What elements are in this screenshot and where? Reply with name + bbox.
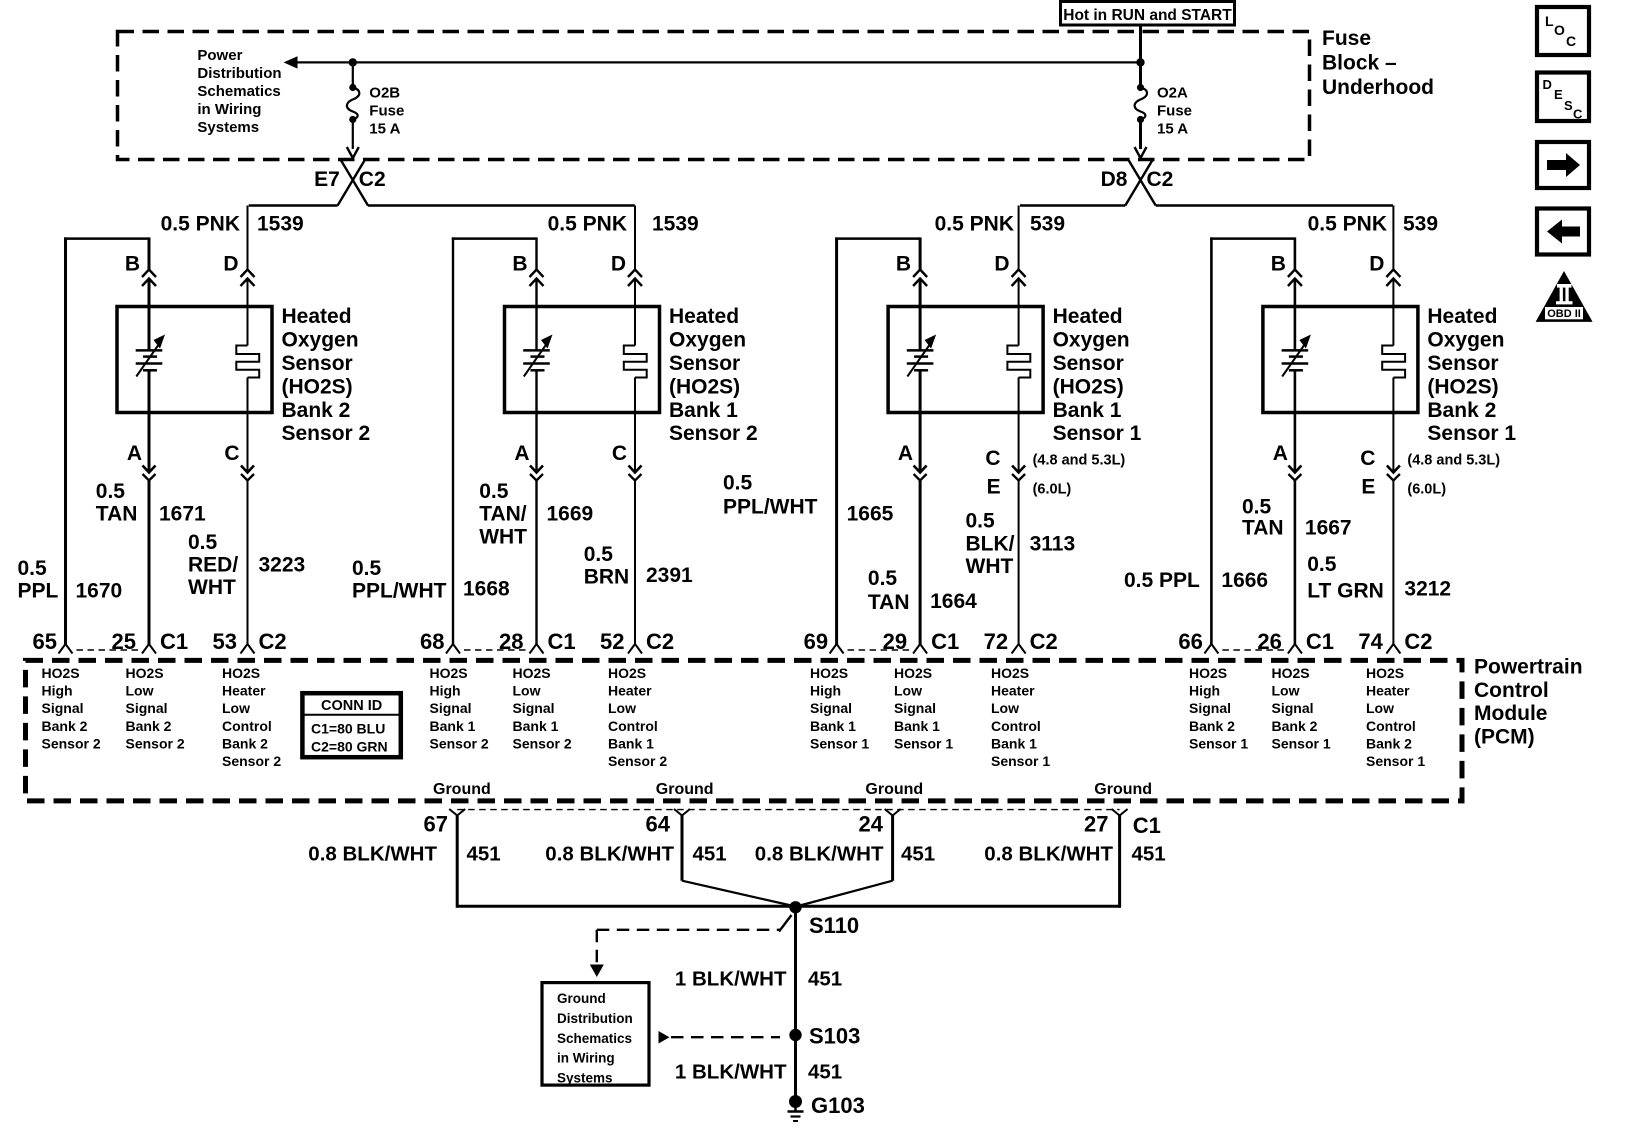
wire: PNK 1539 split horizontal left pair bbox=[249, 204, 338, 206]
svg-text:Fuse: Fuse bbox=[369, 103, 404, 120]
svg-text:HO2S: HO2S bbox=[608, 665, 646, 681]
svg-text:Heated: Heated bbox=[1427, 305, 1497, 328]
svg-text:Signal: Signal bbox=[1189, 700, 1231, 716]
svg-text:1539: 1539 bbox=[257, 213, 304, 236]
svg-text:in Wiring: in Wiring bbox=[197, 101, 261, 118]
svg-text:Control: Control bbox=[991, 718, 1041, 734]
svg-text:Low: Low bbox=[513, 683, 541, 699]
thin dashed connector line across ground pins bbox=[457, 809, 1119, 811]
svg-text:C2: C2 bbox=[1030, 629, 1058, 654]
svg-text:1 BLK/WHT: 1 BLK/WHT bbox=[675, 1060, 787, 1083]
svg-text:HO2S: HO2S bbox=[991, 665, 1029, 681]
svg-text:HO2S: HO2S bbox=[1366, 665, 1404, 681]
svg-text:451: 451 bbox=[901, 843, 935, 866]
svg-text:Sensor: Sensor bbox=[282, 352, 353, 375]
svg-text:Bank 1: Bank 1 bbox=[430, 718, 476, 734]
svg-text:29: 29 bbox=[883, 629, 907, 654]
svg-text:Heated: Heated bbox=[669, 305, 739, 328]
svg-text:D: D bbox=[994, 253, 1009, 276]
svg-text:24: 24 bbox=[859, 812, 884, 837]
svg-text:Heater: Heater bbox=[1366, 683, 1410, 699]
svg-text:TAN: TAN bbox=[1242, 517, 1284, 540]
svg-text:0.5 PPL: 0.5 PPL bbox=[1124, 569, 1200, 592]
svg-text:C1: C1 bbox=[1133, 813, 1161, 838]
connector E7 X C2 splice bbox=[338, 160, 365, 206]
svg-text:A: A bbox=[898, 442, 913, 465]
svg-text:0.8 BLK/WHT: 0.8 BLK/WHT bbox=[308, 843, 437, 866]
svg-text:HO2S: HO2S bbox=[1272, 665, 1310, 681]
PCM pin 66 bbox=[1204, 644, 1211, 654]
svg-text:539: 539 bbox=[1030, 213, 1065, 236]
svg-text:0.5 PNK: 0.5 PNK bbox=[548, 213, 627, 236]
wire: top loop to pin B Bank 1 Sensor 2 bbox=[452, 237, 537, 240]
fuse block - underhood dashed box bbox=[118, 32, 1310, 160]
wire: pin B lead Bank 1 Sensor 2 bbox=[535, 237, 537, 269]
svg-text:0.5 PNK: 0.5 PNK bbox=[935, 213, 1014, 236]
svg-text:65: 65 bbox=[33, 629, 57, 654]
svg-text:Signal: Signal bbox=[430, 700, 472, 716]
ground pin 67 fork bbox=[449, 809, 457, 816]
HO2S Bank 2 Sensor 1 box bbox=[1263, 307, 1418, 413]
svg-text:B: B bbox=[512, 253, 527, 276]
svg-text:Bank 1: Bank 1 bbox=[894, 718, 940, 734]
svg-text:Ground: Ground bbox=[656, 781, 714, 798]
svg-text:Sensor 1: Sensor 1 bbox=[1053, 422, 1142, 445]
wire: heater control to PCM Bank 1 Sensor 1 bbox=[1018, 481, 1020, 646]
svg-text:S110: S110 bbox=[809, 913, 859, 938]
svg-text:Bank 2: Bank 2 bbox=[222, 735, 268, 751]
wire: S103 to G103 1 BLK/WHT 451 bbox=[794, 1035, 797, 1100]
svg-text:D: D bbox=[611, 253, 626, 276]
ground distribution schematics note box bbox=[542, 983, 649, 1086]
svg-text:2391: 2391 bbox=[646, 564, 693, 587]
icon: DESC button bbox=[1537, 73, 1589, 122]
wire: sensing element to box bottom Bank 2 Sensor 1 bbox=[1294, 370, 1297, 472]
svg-text:D: D bbox=[1369, 253, 1384, 276]
wire: pin A to PCM Bank 1 Sensor 1 bbox=[919, 481, 922, 646]
wire: HO2S Bank 1 Sensor 1 high signal (left vertical) bbox=[835, 237, 838, 645]
svg-text:O: O bbox=[1554, 22, 1565, 38]
wire: ground 451 from pin 24 bbox=[891, 815, 894, 881]
svg-text:Signal: Signal bbox=[513, 700, 555, 716]
svg-text:Sensor 2: Sensor 2 bbox=[430, 735, 489, 751]
svg-text:CONN ID: CONN ID bbox=[321, 698, 382, 714]
wire: pin B lead Bank 1 Sensor 1 bbox=[919, 237, 922, 269]
svg-text:C2: C2 bbox=[1147, 168, 1174, 191]
svg-text:Heater: Heater bbox=[608, 683, 652, 699]
svg-text:S: S bbox=[1564, 98, 1573, 113]
svg-text:Bank 2: Bank 2 bbox=[282, 399, 351, 422]
svg-text:Heater: Heater bbox=[222, 683, 266, 699]
svg-text:Low: Low bbox=[1272, 683, 1300, 699]
svg-text:Ground: Ground bbox=[433, 781, 491, 798]
wire: pin A to PCM Bank 2 Sensor 1 bbox=[1294, 481, 1297, 646]
junction at fuse O2B tap bbox=[349, 58, 357, 66]
svg-text:Sensor 2: Sensor 2 bbox=[608, 753, 667, 769]
node: Hot in RUN and START box bbox=[1061, 2, 1235, 26]
ground pin 24 fork bbox=[885, 809, 893, 816]
svg-text:RED/: RED/ bbox=[188, 553, 238, 576]
svg-text:Control: Control bbox=[608, 718, 658, 734]
svg-text:LT GRN: LT GRN bbox=[1307, 579, 1384, 602]
svg-text:0.5 PNK: 0.5 PNK bbox=[1308, 213, 1387, 236]
icon: back arrow button bbox=[1537, 209, 1589, 255]
svg-text:C1: C1 bbox=[160, 629, 188, 654]
svg-text:27: 27 bbox=[1084, 812, 1108, 837]
svg-text:A: A bbox=[1273, 442, 1288, 465]
wire: heater low from box Bank 1 Sensor 2 bbox=[634, 378, 636, 473]
svg-text:451: 451 bbox=[693, 843, 727, 866]
svg-text:Bank 2: Bank 2 bbox=[42, 718, 88, 734]
arrow into connector below fuse O2A bbox=[1135, 147, 1141, 158]
svg-text:Sensor 1: Sensor 1 bbox=[1366, 753, 1425, 769]
ground pin 27 fork bbox=[1112, 809, 1120, 816]
wire: pin D lead Bank 1 Sensor 2 bbox=[634, 206, 636, 270]
wire: HO2S Bank 2 Sensor 1 high signal (left vertical) bbox=[1210, 237, 1213, 645]
svg-text:Underhood: Underhood bbox=[1322, 76, 1434, 99]
svg-text:TAN: TAN bbox=[96, 503, 138, 526]
wire: fused battery feed inside fuse block bbox=[293, 61, 1141, 63]
svg-text:HO2S: HO2S bbox=[126, 665, 164, 681]
wire: heater low from box Bank 2 Sensor 2 bbox=[247, 378, 249, 473]
svg-text:0.8 BLK/WHT: 0.8 BLK/WHT bbox=[545, 843, 674, 866]
PCM pin 53 C2 bbox=[241, 644, 248, 654]
svg-text:Sensor 2: Sensor 2 bbox=[126, 735, 185, 751]
svg-text:53: 53 bbox=[213, 629, 237, 654]
svg-text:72: 72 bbox=[984, 629, 1008, 654]
svg-text:3223: 3223 bbox=[259, 553, 306, 576]
heater element Bank 2 Sensor 1 bbox=[1382, 346, 1405, 378]
svg-text:0.5: 0.5 bbox=[584, 543, 614, 566]
connector pin B Bank 1 Sensor 1 bbox=[913, 270, 927, 278]
svg-text:(4.8 and 5.3L): (4.8 and 5.3L) bbox=[1407, 453, 1500, 469]
svg-text:High: High bbox=[42, 683, 73, 699]
svg-text:C1: C1 bbox=[548, 629, 576, 654]
svg-text:Oxygen: Oxygen bbox=[1427, 329, 1504, 352]
svg-text:C: C bbox=[224, 442, 239, 465]
svg-text:HO2S: HO2S bbox=[1189, 665, 1227, 681]
Powertrain Control Module dashed box bbox=[26, 660, 1463, 801]
svg-text:Heated: Heated bbox=[1053, 305, 1123, 328]
svg-text:(HO2S): (HO2S) bbox=[1427, 375, 1498, 398]
wire: top loop to pin B Bank 2 Sensor 2 bbox=[64, 237, 149, 240]
heater element Bank 2 Sensor 2 bbox=[236, 346, 259, 378]
wire: sensing element to box bottom Bank 2 Sensor 2 bbox=[148, 370, 151, 472]
sensing element (variable cell) Bank 2 Sensor 1 bbox=[1282, 349, 1309, 352]
svg-text:OBD II: OBD II bbox=[1547, 308, 1581, 320]
svg-text:High: High bbox=[430, 683, 461, 699]
svg-text:66: 66 bbox=[1178, 629, 1202, 654]
wire: diagonal from pin 64 to S110 bbox=[682, 881, 794, 906]
PCM pin 65 bbox=[59, 644, 66, 654]
svg-text:D8: D8 bbox=[1101, 168, 1128, 191]
svg-text:A: A bbox=[127, 442, 142, 465]
svg-text:0.5: 0.5 bbox=[1307, 553, 1337, 576]
connector pin D Bank 2 Sensor 1 bbox=[1386, 270, 1400, 278]
splice S103 bbox=[789, 1029, 801, 1041]
svg-text:Sensor: Sensor bbox=[1427, 352, 1498, 375]
svg-text:WHT: WHT bbox=[188, 576, 236, 599]
PCM pin 74 C2 bbox=[1386, 644, 1393, 654]
svg-text:Ground: Ground bbox=[557, 991, 606, 1006]
svg-text:Signal: Signal bbox=[42, 700, 84, 716]
svg-text:Ground: Ground bbox=[1094, 781, 1152, 798]
svg-text:HO2S: HO2S bbox=[42, 665, 80, 681]
svg-text:HO2S: HO2S bbox=[513, 665, 551, 681]
svg-text:(4.8 and 5.3L): (4.8 and 5.3L) bbox=[1033, 453, 1126, 469]
svg-text:Sensor 1: Sensor 1 bbox=[894, 735, 953, 751]
dashed link pins 66-26 bbox=[1222, 649, 1284, 651]
svg-text:3113: 3113 bbox=[1030, 532, 1076, 555]
connector pin D Bank 1 Sensor 2 bbox=[628, 270, 642, 278]
svg-text:451: 451 bbox=[808, 1060, 842, 1083]
svg-text:WHT: WHT bbox=[479, 525, 527, 548]
PCM pin 72 C2 bbox=[1012, 644, 1019, 654]
wire: ground 451 from pin 27 bbox=[1118, 815, 1121, 908]
svg-text:C2: C2 bbox=[1404, 629, 1432, 654]
svg-text:G103: G103 bbox=[811, 1093, 865, 1118]
fuse O2B 15 A bbox=[352, 62, 354, 87]
svg-text:Bank 1: Bank 1 bbox=[1053, 399, 1122, 422]
svg-text:0.5: 0.5 bbox=[352, 557, 382, 580]
svg-text:Block –: Block – bbox=[1322, 52, 1397, 75]
svg-text:3212: 3212 bbox=[1404, 578, 1451, 601]
svg-text:451: 451 bbox=[467, 843, 501, 866]
svg-text:High: High bbox=[810, 683, 841, 699]
svg-text:0.5: 0.5 bbox=[1242, 496, 1272, 519]
junction at fuse O2A tap bbox=[1136, 58, 1144, 66]
svg-text:in Wiring: in Wiring bbox=[557, 1051, 615, 1066]
wire: heater control to PCM Bank 1 Sensor 2 bbox=[634, 481, 636, 646]
PCM pin 28 C1 bbox=[530, 644, 537, 654]
svg-text:Oxygen: Oxygen bbox=[1053, 329, 1130, 352]
svg-text:Low: Low bbox=[222, 700, 250, 716]
arrowhead from note box to S103 bbox=[659, 1031, 670, 1044]
svg-text:0.5: 0.5 bbox=[868, 567, 898, 590]
svg-text:Powertrain: Powertrain bbox=[1474, 656, 1583, 679]
svg-text:A: A bbox=[514, 442, 529, 465]
svg-text:74: 74 bbox=[1358, 629, 1383, 654]
svg-text:1665: 1665 bbox=[847, 503, 894, 526]
svg-text:1671: 1671 bbox=[159, 503, 206, 526]
dashed link pins 69-29 bbox=[848, 649, 910, 651]
svg-text:HO2S: HO2S bbox=[222, 665, 260, 681]
svg-text:B: B bbox=[1271, 253, 1286, 276]
svg-text:Low: Low bbox=[894, 683, 922, 699]
svg-text:TAN: TAN bbox=[868, 591, 910, 614]
svg-text:1668: 1668 bbox=[463, 578, 510, 601]
wire: top loop to pin B Bank 1 Sensor 1 bbox=[835, 237, 920, 240]
svg-text:Low: Low bbox=[126, 683, 154, 699]
svg-text:Schematics: Schematics bbox=[197, 83, 280, 100]
wire: heater low from box Bank 2 Sensor 1 bbox=[1392, 378, 1394, 473]
svg-text:(HO2S): (HO2S) bbox=[282, 375, 353, 398]
svg-text:Bank 1: Bank 1 bbox=[513, 718, 559, 734]
svg-text:High: High bbox=[1189, 683, 1220, 699]
svg-text:1664: 1664 bbox=[930, 590, 977, 613]
svg-text:1669: 1669 bbox=[547, 503, 594, 526]
svg-text:Sensor 1: Sensor 1 bbox=[1189, 735, 1248, 751]
svg-text:HO2S: HO2S bbox=[430, 665, 468, 681]
svg-text:Bank 2: Bank 2 bbox=[1189, 718, 1235, 734]
svg-text:Bank 2: Bank 2 bbox=[1366, 735, 1412, 751]
svg-text:(PCM): (PCM) bbox=[1474, 725, 1535, 748]
svg-text:28: 28 bbox=[499, 629, 523, 654]
svg-text:Sensor: Sensor bbox=[1053, 352, 1124, 375]
connector pin D Bank 2 Sensor 2 bbox=[241, 270, 255, 278]
svg-text:0.5: 0.5 bbox=[18, 557, 48, 580]
svg-text:1 BLK/WHT: 1 BLK/WHT bbox=[675, 967, 787, 990]
svg-text:Bank 2: Bank 2 bbox=[1427, 399, 1496, 422]
wire: top loop to pin B Bank 2 Sensor 1 bbox=[1210, 237, 1295, 240]
svg-text:Distribution: Distribution bbox=[557, 1011, 633, 1026]
svg-text:Bank 2: Bank 2 bbox=[126, 718, 172, 734]
heater element Bank 1 Sensor 1 bbox=[1007, 346, 1030, 378]
wire: ground bus horizontal bbox=[457, 905, 1119, 908]
wire: HO2S Bank 1 Sensor 2 high signal (left vertical) bbox=[452, 237, 454, 645]
svg-text:B: B bbox=[896, 253, 911, 276]
PCM pin 29 C1 bbox=[913, 644, 920, 654]
svg-text:Low: Low bbox=[1366, 700, 1394, 716]
svg-text:0.5: 0.5 bbox=[479, 480, 509, 503]
svg-text:BRN: BRN bbox=[584, 565, 630, 588]
dashed reference from S110 to ground distribution bbox=[597, 929, 781, 931]
arrowhead down to ground distribution note bbox=[590, 965, 604, 978]
HO2S Bank 2 Sensor 2 box bbox=[117, 307, 272, 413]
svg-text:C2: C2 bbox=[646, 629, 674, 654]
wire: heater low from box Bank 1 Sensor 1 bbox=[1018, 378, 1020, 473]
dashed link pins 65-25 bbox=[77, 649, 139, 651]
svg-text:Hot in RUN and START: Hot in RUN and START bbox=[1063, 7, 1232, 24]
wire: HO2S Bank 2 Sensor 2 high signal (left vertical) bbox=[64, 237, 67, 645]
svg-text:Systems: Systems bbox=[557, 1070, 613, 1085]
svg-text:1539: 1539 bbox=[652, 213, 699, 236]
svg-text:B: B bbox=[125, 253, 140, 276]
svg-text:Sensor 2: Sensor 2 bbox=[222, 753, 281, 769]
svg-text:Signal: Signal bbox=[126, 700, 168, 716]
wire from Hot box down to fuse feed bbox=[1139, 25, 1142, 62]
svg-text:Sensor: Sensor bbox=[669, 352, 740, 375]
connector pin D Bank 1 Sensor 1 bbox=[1012, 270, 1026, 278]
svg-text:Control: Control bbox=[222, 718, 272, 734]
svg-text:Sensor 1: Sensor 1 bbox=[1272, 735, 1331, 751]
svg-text:Signal: Signal bbox=[894, 700, 936, 716]
svg-text:25: 25 bbox=[112, 629, 136, 654]
svg-text:Sensor 2: Sensor 2 bbox=[669, 422, 758, 445]
svg-text:C2: C2 bbox=[259, 629, 287, 654]
svg-text:0.8 BLK/WHT: 0.8 BLK/WHT bbox=[984, 843, 1113, 866]
wire: pin B lead Bank 2 Sensor 2 bbox=[148, 237, 151, 269]
fuse O2A 15 A bbox=[1139, 62, 1142, 87]
svg-text:D: D bbox=[223, 253, 238, 276]
svg-text:(HO2S): (HO2S) bbox=[669, 375, 740, 398]
svg-text:Signal: Signal bbox=[810, 700, 852, 716]
wire: S110 to S103 1 BLK/WHT 451 bbox=[794, 907, 797, 1035]
svg-text:Low: Low bbox=[608, 700, 636, 716]
svg-text:E: E bbox=[1554, 87, 1563, 102]
svg-text:Sensor 1: Sensor 1 bbox=[1427, 422, 1516, 445]
PCM pin 52 C2 bbox=[628, 644, 635, 654]
wire: pin A to PCM Bank 2 Sensor 2 bbox=[148, 481, 151, 646]
svg-text:Bank 1: Bank 1 bbox=[608, 735, 654, 751]
dashed link pins 68-28 bbox=[464, 649, 526, 651]
svg-text:Bank 1: Bank 1 bbox=[669, 399, 738, 422]
svg-text:WHT: WHT bbox=[966, 555, 1014, 578]
CONN ID legend box bbox=[302, 693, 400, 757]
svg-text:Oxygen: Oxygen bbox=[282, 329, 359, 352]
svg-text:26: 26 bbox=[1257, 629, 1281, 654]
icon: OBD II symbol bbox=[1536, 271, 1593, 322]
svg-text:15 A: 15 A bbox=[1157, 121, 1188, 138]
svg-text:C2=80 GRN: C2=80 GRN bbox=[311, 739, 388, 755]
svg-text:D: D bbox=[1543, 77, 1552, 92]
wire: pin D lead Bank 1 Sensor 1 bbox=[1018, 206, 1020, 270]
svg-text:451: 451 bbox=[808, 967, 842, 990]
connector pin B Bank 2 Sensor 1 bbox=[1288, 270, 1302, 278]
heater element Bank 1 Sensor 2 bbox=[624, 346, 647, 378]
svg-text:C1: C1 bbox=[931, 629, 959, 654]
PCM pin 69 bbox=[830, 644, 837, 654]
svg-text:(HO2S): (HO2S) bbox=[1053, 375, 1124, 398]
svg-text:52: 52 bbox=[600, 629, 624, 654]
svg-text:Oxygen: Oxygen bbox=[669, 329, 746, 352]
svg-text:C1=80 BLU: C1=80 BLU bbox=[311, 721, 385, 737]
sensing element (variable cell) Bank 2 Sensor 2 bbox=[136, 349, 163, 352]
svg-text:E: E bbox=[1361, 476, 1375, 499]
svg-text:PPL/WHT: PPL/WHT bbox=[723, 496, 818, 519]
wire: ground 451 from pin 67 bbox=[456, 815, 459, 908]
svg-text:L: L bbox=[1545, 13, 1554, 29]
svg-text:1670: 1670 bbox=[76, 580, 123, 603]
svg-text:HO2S: HO2S bbox=[810, 665, 848, 681]
svg-text:C: C bbox=[612, 442, 627, 465]
wire: PNK 539 split horizontal right pair bbox=[1020, 204, 1125, 206]
svg-text:64: 64 bbox=[646, 812, 671, 837]
HO2S Bank 1 Sensor 1 box bbox=[888, 307, 1043, 413]
sensing element (variable cell) Bank 1 Sensor 2 bbox=[523, 349, 550, 352]
svg-text:PPL/WHT: PPL/WHT bbox=[352, 580, 447, 603]
svg-text:Heated: Heated bbox=[282, 305, 352, 328]
svg-text:(6.0L): (6.0L) bbox=[1407, 482, 1446, 498]
wire: heater control to PCM Bank 2 Sensor 2 bbox=[247, 481, 249, 646]
svg-text:Fuse: Fuse bbox=[1157, 103, 1192, 120]
svg-text:Control: Control bbox=[1366, 718, 1416, 734]
PCM pin 26 C1 bbox=[1288, 644, 1295, 654]
icon: LOC button bbox=[1537, 7, 1589, 55]
svg-text:Schematics: Schematics bbox=[557, 1031, 632, 1046]
PCM pin 68 bbox=[446, 644, 453, 654]
svg-text:PPL: PPL bbox=[18, 580, 59, 603]
wire: pin B lead Bank 2 Sensor 1 bbox=[1294, 237, 1297, 269]
svg-text:0.8 BLK/WHT: 0.8 BLK/WHT bbox=[755, 843, 884, 866]
dashed reference line to S103 bbox=[671, 1036, 780, 1038]
svg-text:Sensor 2: Sensor 2 bbox=[513, 735, 572, 751]
wire: heater control to PCM Bank 2 Sensor 1 bbox=[1392, 481, 1394, 646]
svg-text:Signal: Signal bbox=[1272, 700, 1314, 716]
icon: forward arrow button bbox=[1537, 142, 1589, 188]
svg-text:E: E bbox=[987, 476, 1001, 499]
svg-text:Bank 2: Bank 2 bbox=[1272, 718, 1318, 734]
connector D8 X C2 splice bbox=[1125, 160, 1152, 206]
sensing element (variable cell) Bank 1 Sensor 1 bbox=[907, 349, 934, 352]
svg-text:Power: Power bbox=[197, 47, 242, 64]
connector pin B Bank 2 Sensor 2 bbox=[142, 270, 156, 278]
svg-text:C2: C2 bbox=[359, 168, 386, 191]
ground pin 64 fork bbox=[674, 809, 682, 816]
svg-text:Module: Module bbox=[1474, 702, 1548, 725]
svg-text:BLK/: BLK/ bbox=[966, 532, 1015, 555]
svg-text:15 A: 15 A bbox=[369, 121, 400, 138]
